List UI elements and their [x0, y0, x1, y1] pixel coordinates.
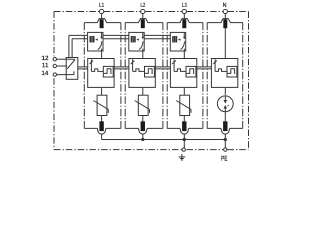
device enclosure dash-dot outline [54, 12, 249, 150]
mechanical coupling link 4 [197, 67, 212, 69]
trigger bus upper [69, 34, 170, 36]
plug-in contact bottom N [221, 121, 229, 134]
plug-in contact top L3 [182, 19, 186, 28]
wire L2 terminal to module [142, 14, 144, 20]
varistor L2 [135, 95, 150, 115]
wire L2 spark gap to disconnector [142, 51, 144, 59]
wire L1 varistor to bottom contact [101, 116, 103, 122]
thermal disconnector L3 [170, 59, 196, 88]
plug-in contact bottom L3 [180, 121, 188, 134]
junction L3/PE bus [183, 138, 186, 141]
wire L3 disconnector output [183, 87, 185, 95]
wire L3 to PE bus [183, 134, 185, 139]
label PE [221, 156, 227, 161]
trigger bus risers [69, 35, 72, 57]
wire L2 to PE bus [142, 134, 144, 139]
wire L3 terminal to module [183, 14, 185, 20]
junction N/PE bus [224, 138, 227, 141]
remote signalling changeover contact [66, 58, 78, 80]
plug-in contact bottom L1 [97, 121, 105, 134]
wire L1 terminal to module [101, 14, 103, 20]
mechanical coupling link 2 [114, 67, 129, 69]
terminal L3 [182, 3, 187, 14]
wire to PE terminal [224, 140, 226, 148]
earth terminal [182, 148, 185, 151]
module L2 outline [125, 19, 163, 129]
wire L3 spark gap to disconnector [183, 51, 185, 59]
module L1 outline [84, 19, 121, 129]
wire L3 varistor to bottom contact [183, 116, 185, 122]
terminal 12 [42, 56, 57, 61]
wire L2 disconnector output [142, 87, 144, 95]
mechanical coupling link 1 [78, 67, 88, 69]
module L3 outline [167, 19, 203, 129]
mechanical coupling link 3 [155, 67, 170, 69]
wire terminal 12 [57, 58, 72, 60]
wire terminal 14 [57, 71, 74, 74]
switching spark gap L2 [129, 32, 144, 51]
junction L2/PE bus [141, 138, 144, 141]
terminal N [223, 3, 227, 14]
varistor L1 [93, 95, 108, 115]
wire N terminal to module [224, 14, 226, 20]
N-PE spark gap [217, 96, 233, 112]
wire L1 spark gap to disconnector [101, 51, 103, 59]
PE bus [102, 139, 226, 141]
wire L1 to PE bus [101, 134, 103, 139]
terminal L1 [99, 3, 104, 14]
thermal disconnector L2 [129, 59, 155, 88]
PE terminal [224, 148, 227, 151]
terminal L2 [141, 3, 146, 14]
module N outline [207, 19, 243, 129]
wire to earth terminal [183, 140, 185, 148]
trigger bus lower [72, 38, 170, 40]
varistor L3 [176, 95, 191, 115]
plug-in contact top N [223, 19, 227, 28]
wire N spark gap to bottom contact [224, 112, 226, 122]
terminal 11 [42, 63, 56, 68]
wire N disconnector output [224, 87, 226, 95]
wire N to PE bus [224, 134, 226, 139]
thermal disconnector N [211, 59, 237, 88]
switching spark gap L1 [88, 32, 103, 51]
wire terminal 11 [57, 65, 68, 67]
switching spark gap L3 [170, 32, 185, 51]
thermal disconnector L1 [88, 59, 114, 88]
wire N terminal to disconnector [224, 28, 226, 59]
plug-in contact top L2 [141, 19, 145, 28]
earth symbol [179, 154, 186, 160]
wire L1 disconnector output [101, 87, 103, 95]
terminal 14 [42, 71, 57, 77]
wire L2 varistor to bottom contact [142, 116, 144, 122]
plug-in contact top L1 [100, 19, 104, 28]
plug-in contact bottom L2 [139, 121, 147, 134]
